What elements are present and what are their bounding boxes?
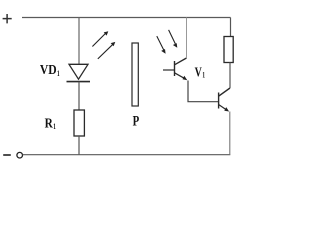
load resistor (right, unlabeled): [224, 37, 233, 63]
LED VD1 emission arrows: [92, 31, 115, 59]
wire: R1 to bottom rail: [78, 136, 80, 155]
svg-text:VD: VD: [40, 62, 57, 77]
wire: V1 collector to top rail: [186, 18, 188, 59]
resistor R1: [74, 110, 84, 136]
bottom rail wire: [23, 154, 231, 156]
wire: VD1 cathode to R1: [78, 82, 80, 110]
wire: top-right corner down to load resistor: [230, 18, 232, 37]
svg-text:R: R: [45, 116, 53, 131]
wire: V1 emitter down and right to second base: [188, 81, 219, 102]
svg-text:1: 1: [53, 121, 56, 131]
svg-text:1: 1: [202, 70, 205, 80]
svg-text:V: V: [195, 64, 203, 79]
wire: load resistor to collector: [229, 63, 231, 89]
wire: + rail down to VD1 anode: [78, 18, 80, 65]
light arrows to phototransistor V1: [157, 30, 178, 54]
transistor V1 second stage: [219, 88, 230, 110]
svg-text:1: 1: [57, 68, 60, 78]
wire: emitter down to bottom rail: [229, 112, 231, 155]
phototransistor V1 (first stage): [163, 58, 187, 79]
LED VD1: [67, 64, 91, 81]
svg-text:P: P: [133, 114, 140, 130]
- terminal: [3, 154, 11, 156]
shutter plate P: [132, 43, 138, 106]
+ terminal: [3, 14, 12, 23]
top rail wire: [22, 17, 231, 19]
